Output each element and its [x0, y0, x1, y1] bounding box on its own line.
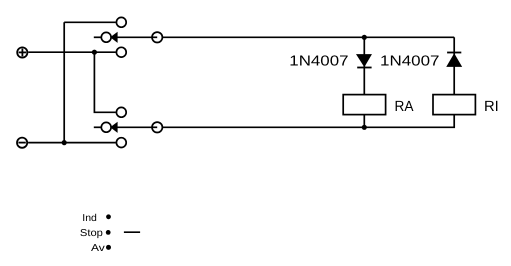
connector J1	[152, 32, 162, 42]
diode D2 1N4007	[447, 53, 461, 67]
junction bottom at RA	[362, 125, 367, 130]
svg-text:RI: RI	[484, 99, 499, 115]
switch S1 wiper	[94, 32, 118, 43]
svg-text:Av: Av	[91, 243, 105, 254]
switch S2 wiper	[94, 122, 118, 133]
wire S1 top stub	[64, 21, 116, 23]
terminal +	[17, 47, 27, 57]
switch S2 contact top	[116, 107, 126, 117]
legend Stop dot	[106, 230, 111, 235]
wire plus-to-S2-top	[94, 52, 115, 112]
wire D1 branch vertical	[363, 37, 365, 94]
wire bottom run J2 to RI	[162, 115, 454, 128]
switch S2 contact bottom	[116, 138, 126, 148]
legend Av dot	[106, 245, 111, 250]
svg-text:RA: RA	[395, 99, 414, 115]
relay coil RI	[433, 95, 475, 115]
junction top at D1	[362, 35, 367, 40]
wire minus-to-S1-top vertical	[63, 22, 65, 142]
svg-text:Stop: Stop	[80, 228, 103, 239]
wire top run J1 to D2	[162, 36, 454, 38]
junction on - bus	[62, 140, 67, 145]
junction on + bus	[92, 50, 97, 55]
legend Ind dot	[106, 214, 111, 219]
relay coil RA	[343, 95, 385, 115]
diode D1 1N4007	[357, 55, 372, 68]
connector J2	[152, 122, 162, 132]
wire S1 wiper to J1	[118, 36, 153, 38]
switch S1 contact top	[116, 17, 126, 27]
svg-text:1N4007: 1N4007	[380, 54, 440, 70]
svg-text:Ind: Ind	[82, 213, 97, 224]
svg-text:1N4007: 1N4007	[289, 54, 348, 70]
switch S1 contact bottom	[116, 47, 126, 57]
wire + bus	[28, 51, 115, 53]
wire - bus	[28, 142, 116, 144]
terminal -	[17, 138, 27, 148]
wire RA to bottom run	[363, 115, 365, 128]
wire S2 wiper to J2	[118, 126, 153, 128]
legend Stop dash	[124, 231, 140, 233]
wire D2 branch vertical	[453, 37, 455, 94]
